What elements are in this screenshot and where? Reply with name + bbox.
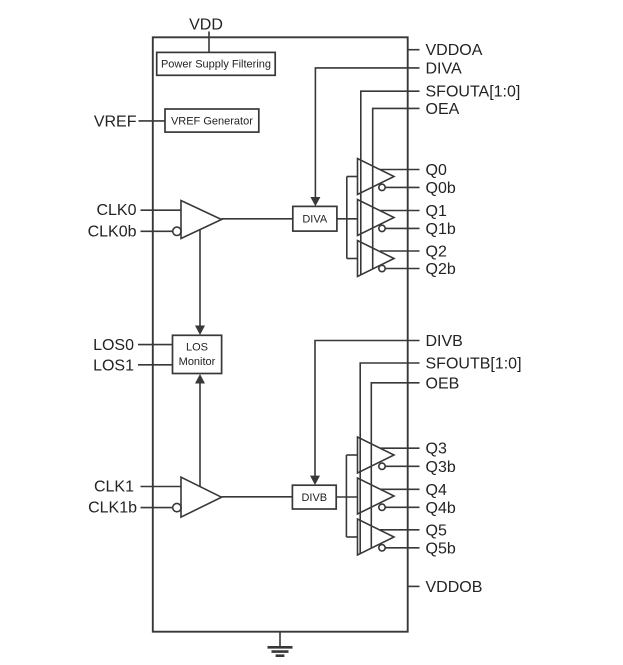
svg-text:Q5: Q5 [426,522,447,539]
wire DIVA output bus [346,177,348,259]
svg-text:DIVB: DIVB [426,333,463,350]
wire OEB control [371,383,419,548]
wire CLK0 buffer to LOS monitor (arrow down) [199,230,201,327]
svg-text:OEB: OEB [426,375,460,392]
svg-text:Q2b: Q2b [426,261,456,278]
svg-text:Q0: Q0 [426,162,447,179]
buffer Q0/Q0b output triangle [358,159,395,195]
svg-text:LOS: LOS [186,341,208,353]
svg-text:Monitor: Monitor [179,356,216,368]
wire Q3 output [380,447,420,449]
svg-text:Q1b: Q1b [426,221,456,238]
wire Q5b output [385,547,419,549]
svg-text:VDDOB: VDDOB [426,579,483,596]
svg-text:CLK1: CLK1 [94,479,134,496]
block DIVB [292,485,336,509]
svg-text:VREF Generator: VREF Generator [171,115,253,127]
block VREF Generator [165,109,259,132]
svg-text:Q4b: Q4b [426,500,456,517]
svg-text:VREF: VREF [94,113,137,130]
wire OEA control [373,108,420,269]
wire CLK1 buffer to DIVB [222,496,293,498]
wire Q2b output [385,268,419,270]
wire CLK0 buffer to DIVA [222,218,293,220]
buffer CLK1 input triangle [181,477,222,517]
wire Q0b output [385,186,419,188]
wire VREF input [139,120,166,122]
wire CLK1 buffer to LOS monitor (arrow up) [199,383,201,487]
wire CLK0b input [141,230,173,232]
wire Q4 output [380,488,420,490]
ground symbol [279,632,281,647]
svg-text:OEA: OEA [426,101,460,118]
wire CLK1b input [141,507,173,509]
pin stub VDDOB [408,585,420,587]
block Power Supply Filtering [157,52,276,75]
wire Q0 output [380,169,420,171]
buffer Q2/Q2b output triangle [358,241,395,277]
wire SFOUTB control [360,363,419,554]
svg-text:CLK0: CLK0 [96,202,136,219]
wire Q5 output [380,529,420,531]
svg-text:SFOUTA[1:0]: SFOUTA[1:0] [426,84,521,101]
wire Q3b output [385,465,419,467]
output bubble Q3b [379,463,385,469]
svg-text:VDDOA: VDDOA [426,42,483,59]
svg-text:DIVA: DIVA [302,214,328,226]
svg-text:LOS1: LOS1 [93,357,134,374]
buffer Q5/Q5b output triangle [358,519,395,555]
buffer Q4/Q4b output triangle [358,478,395,514]
wire DIVB output bus [345,455,347,537]
svg-text:DIVB: DIVB [301,492,327,504]
wire Q4b output [385,506,419,508]
wire VDD stem [208,32,210,53]
wire Q1b output [385,227,419,229]
buffer CLK0 input triangle [181,201,222,239]
wire LOS0 input [138,344,173,346]
svg-text:Power Supply Filtering: Power Supply Filtering [161,59,271,71]
wire DIVB pin feed with arrow [315,341,420,477]
svg-text:Q3: Q3 [426,441,447,458]
input bubble CLK0b [173,227,181,235]
wire SFOUTA control [361,91,420,275]
wire CLK1 input [141,486,182,488]
wire DIVA pin feed with arrow [315,68,419,198]
svg-text:Q2: Q2 [426,244,447,261]
wire CLK0 input [141,209,182,211]
output bubble Q5b [379,545,385,551]
output bubble Q4b [379,504,385,510]
svg-text:Q0b: Q0b [426,180,456,197]
wire Q2 output [380,250,420,252]
wire Q1 output [380,210,420,212]
wire LOS1 input [138,364,173,366]
svg-text:Q4: Q4 [426,482,447,499]
block LOS Monitor [173,335,222,373]
svg-text:CLK1b: CLK1b [88,500,137,517]
svg-text:Q1: Q1 [426,203,447,220]
svg-text:Q3b: Q3b [426,459,456,476]
svg-text:VDD: VDD [189,17,223,34]
main IC block outline [153,37,408,631]
svg-text:CLK0b: CLK0b [88,223,137,240]
svg-text:Q5b: Q5b [426,540,456,557]
output bubble Q2b [379,265,385,271]
svg-text:DIVA: DIVA [426,60,462,77]
block DIVA [293,206,337,231]
output bubble Q1b [379,225,385,231]
svg-text:LOS0: LOS0 [93,337,134,354]
pin stub VDDOA [408,49,420,51]
output bubble Q0b [379,184,385,190]
input bubble CLK1b [173,503,181,511]
svg-text:SFOUTB[1:0]: SFOUTB[1:0] [426,356,522,373]
buffer Q1/Q1b output triangle [358,200,395,236]
buffer Q3/Q3b output triangle [358,437,395,473]
